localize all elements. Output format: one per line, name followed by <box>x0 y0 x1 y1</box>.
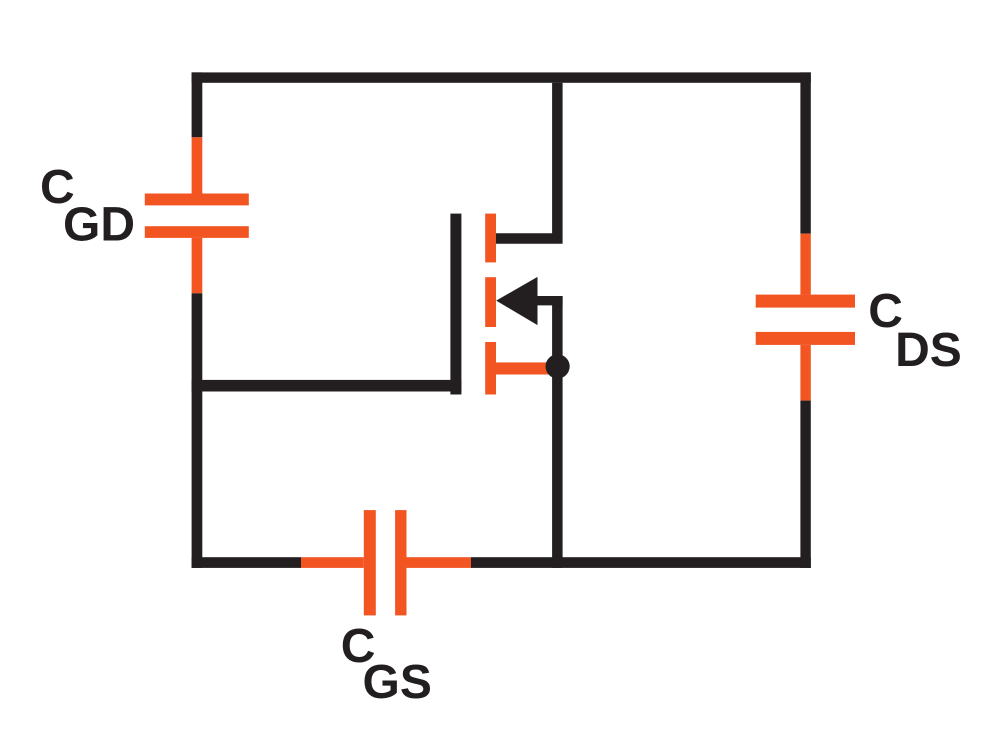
wire left rail upper segment <box>192 72 203 137</box>
transistor Q1 source stub <box>495 362 558 374</box>
capacitor C_GD <box>145 137 249 293</box>
wire gate branch <box>192 380 462 392</box>
label C_DS <box>868 285 962 377</box>
wire right rail lower segment <box>800 401 810 568</box>
wire drain stub <box>496 83 563 244</box>
transistor Q1 channel bar bottom segment <box>485 342 496 395</box>
wire source vertical to bottom rail <box>552 296 563 568</box>
transistor Q1 channel bar middle segment <box>485 277 496 327</box>
wire right rail upper segment <box>800 72 810 233</box>
svg-text:GS: GS <box>363 656 432 709</box>
transistor Q1 gate bar <box>450 214 461 395</box>
transistor Q1 channel bar top segment <box>485 214 496 263</box>
wire top rail <box>192 72 811 82</box>
label C_GD <box>40 161 135 251</box>
svg-text:GD: GD <box>63 199 135 252</box>
wire bottom rail left black segment <box>192 557 301 568</box>
wire left rail lower segment <box>192 293 203 568</box>
wire bottom rail right black segment <box>471 557 811 568</box>
node source junction dot <box>546 354 570 378</box>
capacitor C_GS <box>301 510 471 615</box>
svg-text:DS: DS <box>895 324 962 377</box>
transistor Q1 body arrow <box>496 277 562 325</box>
label C_GS <box>341 620 432 709</box>
capacitor C_DS <box>756 234 855 401</box>
